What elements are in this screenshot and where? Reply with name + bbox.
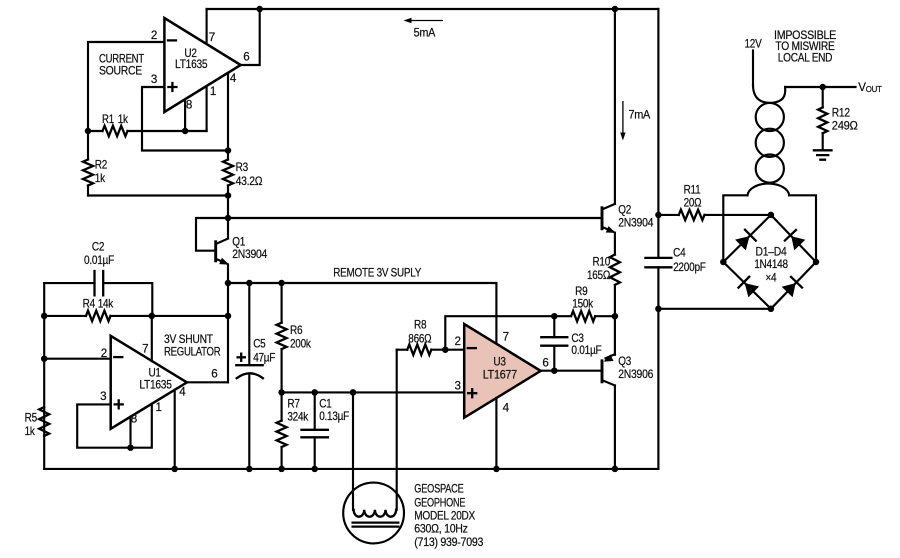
svg-text:C1: C1 <box>319 397 331 410</box>
label 12V <box>745 37 762 50</box>
svg-text:LT1635: LT1635 <box>139 378 171 391</box>
svg-text:1: 1 <box>156 401 162 414</box>
label 3V SHUNT REGULATOR <box>164 333 220 359</box>
capacitor C4 2200pF <box>645 258 671 267</box>
wire U2 pin8 stub <box>184 99 186 131</box>
svg-text:4: 4 <box>179 385 186 398</box>
resistor R9 <box>571 311 615 321</box>
wire U2 pin2 input <box>88 42 164 131</box>
svg-text:LT1635: LT1635 <box>175 58 207 71</box>
svg-text:REMOTE 3V SUPLY: REMOTE 3V SUPLY <box>333 267 421 280</box>
current arrow 5mA <box>404 18 444 40</box>
wire U1 pin6 output <box>187 381 228 383</box>
svg-text:2200pF: 2200pF <box>673 261 706 274</box>
resistor R3 <box>223 160 233 196</box>
svg-text:R10: R10 <box>593 256 611 269</box>
node U1 pin2 junction <box>41 355 48 362</box>
svg-text:GEOPHONE: GEOPHONE <box>414 496 465 509</box>
wire Q1 base loop <box>196 218 228 251</box>
label IMPOSSIBLE TO MISWIRE LOCAL END <box>774 29 837 64</box>
svg-text:2: 2 <box>455 335 461 348</box>
node remote rail left junctions <box>225 280 285 287</box>
diode bridge D1-D4 diamond <box>723 215 816 309</box>
svg-text:U3: U3 <box>493 356 505 369</box>
wire top 5mA rail <box>207 8 659 10</box>
resistor R4 <box>44 311 228 321</box>
svg-text:GEOSPACE: GEOSPACE <box>414 483 464 496</box>
svg-text:R3: R3 <box>236 161 248 174</box>
wire left rail <box>43 283 45 469</box>
svg-text:(713) 939-7093: (713) 939-7093 <box>414 536 483 549</box>
label C4 2200pF <box>673 247 706 274</box>
svg-text:2N3906: 2N3906 <box>618 368 653 381</box>
wire Q2 collector to top rail <box>614 9 616 204</box>
node feedback junctions <box>551 313 618 320</box>
label C1 0.13µF <box>319 397 349 423</box>
resistor R7 <box>277 392 287 469</box>
label Q1 2N3904 <box>232 236 268 261</box>
svg-text:Q3: Q3 <box>618 355 631 368</box>
label R7 324k <box>287 397 308 423</box>
transistor Q2 2N3904 <box>602 204 616 233</box>
wire R3 to Q1 collector node <box>227 196 229 239</box>
svg-text:R8: R8 <box>414 318 426 331</box>
diode D4 (upper-right) <box>785 230 805 250</box>
wire geophone lead A <box>352 392 354 509</box>
svg-text:R5: R5 <box>25 412 37 425</box>
svg-text:1k: 1k <box>95 172 105 185</box>
svg-text:1N4148: 1N4148 <box>754 258 788 271</box>
label R9 150k <box>572 285 593 311</box>
node R3 bottom junction <box>225 192 232 199</box>
resistor R2 <box>83 131 93 196</box>
svg-text:3: 3 <box>455 380 461 393</box>
svg-text:12V: 12V <box>745 37 762 50</box>
wire geophone lead B <box>396 350 398 510</box>
svg-text:47µF: 47µF <box>253 351 275 364</box>
wire U2 pin7 to top rail <box>206 9 208 44</box>
wire U1 pin8 stub <box>129 417 131 448</box>
svg-text:C5: C5 <box>253 338 265 351</box>
svg-text:7mA: 7mA <box>629 108 651 121</box>
svg-text:150k: 150k <box>572 297 593 310</box>
svg-text:6: 6 <box>542 357 548 370</box>
node bridge vertices <box>720 212 819 312</box>
svg-text:8: 8 <box>186 98 192 111</box>
capacitor C3 0.01µF <box>541 316 567 371</box>
capacitor C1 0.13µF <box>302 392 328 469</box>
node right vertical junctions <box>655 212 662 312</box>
capacitor C5 47µF <box>236 283 263 469</box>
wire U1 pin2 input <box>44 358 111 360</box>
resistor R8 <box>397 345 465 355</box>
svg-text:LOCAL END: LOCAL END <box>778 51 832 64</box>
svg-text:D1–D4: D1–D4 <box>756 245 788 258</box>
node U1 pin8 junction <box>127 444 134 451</box>
wire U3 pin4 to ground rail <box>495 398 497 469</box>
label CURRENT SOURCE <box>99 53 144 78</box>
label R11 20Ω <box>684 183 702 209</box>
resistor R10 <box>610 255 620 317</box>
svg-text:7: 7 <box>503 330 509 343</box>
op-amp U2 LT1635 <box>151 18 250 112</box>
svg-text:R4: R4 <box>83 297 96 310</box>
wire remote 3V supply rail <box>228 283 496 344</box>
resistor R6 <box>277 283 287 392</box>
transformer twisted pair (local end) <box>748 51 790 196</box>
label VOUT <box>858 81 882 94</box>
node pin3 net junctions <box>278 389 356 396</box>
label R6 200k <box>290 324 311 351</box>
resistor R5 <box>39 407 49 436</box>
transistor Q3 2N3906 <box>602 354 615 385</box>
svg-text:4: 4 <box>503 402 510 415</box>
node top rail junctions <box>256 6 618 13</box>
node bottom rail junctions <box>171 466 618 473</box>
svg-text:165Ω: 165Ω <box>587 269 611 282</box>
svg-text:0.13µF: 0.13µF <box>319 410 349 423</box>
svg-text:43.2Ω: 43.2Ω <box>236 175 263 188</box>
node VOUT junction <box>819 84 826 91</box>
label R4 14k <box>83 297 114 310</box>
wire Q2 emitter to R10 <box>614 233 616 255</box>
svg-text:8: 8 <box>131 413 137 426</box>
label R5 1k <box>25 412 37 439</box>
wire bridge bottom to right vertical <box>658 308 771 310</box>
node U3 output junction <box>551 367 558 374</box>
svg-text:×4: ×4 <box>765 272 777 285</box>
svg-text:C2: C2 <box>92 240 104 253</box>
node R3 top junction <box>225 147 232 154</box>
svg-text:R9: R9 <box>575 285 587 298</box>
svg-text:Q1: Q1 <box>232 236 245 249</box>
diode D2 (upper-left) <box>735 230 756 251</box>
resistor R1 <box>88 126 207 136</box>
svg-text:R11: R11 <box>684 183 701 196</box>
label C3 0.01µF <box>571 332 601 357</box>
node Q1 collector junction <box>225 215 232 222</box>
node R1/R2 and pin8 junctions <box>85 128 189 135</box>
label GEOSPACE GEOPHONE MODEL 20DX <box>414 483 483 549</box>
svg-text:2: 2 <box>151 29 157 42</box>
label R2 1k <box>95 159 107 186</box>
wire R2 bottom to R3 bottom <box>88 194 228 196</box>
svg-text:0.01µF: 0.01µF <box>84 254 114 267</box>
svg-text:MODEL 20DX: MODEL 20DX <box>414 509 475 522</box>
svg-text:C4: C4 <box>673 247 686 260</box>
svg-text:630Ω, 10Hz: 630Ω, 10Hz <box>414 523 468 536</box>
svg-text:14k: 14k <box>98 297 114 310</box>
label R10 165Ω <box>587 256 611 283</box>
svg-text:3: 3 <box>100 390 106 403</box>
svg-text:324k: 324k <box>287 410 308 423</box>
wire feedback U3 pin2 up <box>445 316 571 350</box>
svg-text:6: 6 <box>211 368 217 381</box>
svg-text:1k: 1k <box>25 425 35 438</box>
wire Q1 node to Q2 base <box>228 217 601 219</box>
svg-text:R7: R7 <box>287 397 299 410</box>
wire Q3 collector to ground rail <box>614 386 616 469</box>
svg-text:5mA: 5mA <box>414 26 436 39</box>
wire bridge frame from transformer <box>723 195 816 262</box>
wire U2 pin1 stub <box>206 86 208 131</box>
wire U1 pin4 to ground rail <box>174 390 176 469</box>
wire U3 pin3 node <box>282 391 465 393</box>
label Q2 2N3904 <box>618 203 654 229</box>
label R3 43.2Ω <box>236 161 263 188</box>
svg-text:REGULATOR: REGULATOR <box>164 346 220 359</box>
wire Q1 emitter vertical to U1 pin6 <box>227 283 229 382</box>
wire U2 pin3 input loop to R3 top node <box>142 87 228 151</box>
svg-text:20Ω: 20Ω <box>684 196 702 209</box>
label C5 47µF <box>253 338 275 365</box>
svg-text:6: 6 <box>243 50 249 63</box>
wire U3 output to Q3 base <box>541 370 601 372</box>
ground symbol <box>814 150 832 159</box>
label R8 866Ω <box>408 318 432 345</box>
node R4 line junctions <box>41 313 231 320</box>
svg-text:R2: R2 <box>95 159 107 172</box>
wire bottom ground rail <box>44 468 658 470</box>
wire U1 pin7 to R4 line <box>151 316 153 361</box>
op-amp U3 LT1677 <box>455 324 549 418</box>
wire right vertical (phantom feed) <box>657 9 659 469</box>
svg-text:1k: 1k <box>118 113 128 126</box>
svg-text:R12: R12 <box>832 106 850 119</box>
label R12 249Ω <box>832 106 858 132</box>
svg-text:2N3904: 2N3904 <box>618 217 654 230</box>
svg-text:2N3904: 2N3904 <box>232 248 268 261</box>
diode D1 (lower-left) <box>739 277 760 298</box>
svg-text:200k: 200k <box>290 338 311 351</box>
label REMOTE 3V SUPLY <box>333 267 421 280</box>
svg-text:3: 3 <box>151 73 157 86</box>
label D1-D4 1N4148 x4 <box>754 245 788 284</box>
label Q3 2N3906 <box>618 355 653 381</box>
label C2 0.01µF <box>84 240 114 267</box>
svg-text:866Ω: 866Ω <box>408 333 432 346</box>
svg-text:R6: R6 <box>290 324 302 337</box>
diode D3 (lower-right) <box>782 277 802 297</box>
label R1 1k <box>102 113 128 126</box>
svg-text:7: 7 <box>142 343 148 356</box>
svg-text:Q2: Q2 <box>618 203 631 216</box>
current arrow 7mA <box>620 101 650 141</box>
svg-text:1: 1 <box>210 85 216 98</box>
capacitor C2 0.01µF <box>44 271 152 316</box>
node U3 pin2 junction <box>442 346 449 353</box>
svg-text:0.01µF: 0.01µF <box>571 344 601 357</box>
wire Q3 emitter to feedback node <box>614 316 616 355</box>
svg-text:4: 4 <box>230 72 237 85</box>
svg-text:3V SHUNT: 3V SHUNT <box>164 333 213 346</box>
transistor Q1 2N3904 <box>216 239 229 283</box>
svg-text:249Ω: 249Ω <box>832 120 858 133</box>
svg-text:7: 7 <box>209 31 215 44</box>
geophone symbol <box>343 483 404 544</box>
svg-text:SOURCE: SOURCE <box>99 65 143 78</box>
resistor R11 <box>658 210 771 220</box>
resistor R12 <box>818 87 827 150</box>
op-amp U1 LT1635 <box>100 336 217 429</box>
wire U2 pin4 to R3 <box>227 73 229 160</box>
wire U2 pin6 output to top rail <box>241 9 260 65</box>
wire U1 pin3 loop <box>77 404 152 448</box>
svg-text:LT1677: LT1677 <box>483 369 517 382</box>
wire VOUT line <box>785 86 855 88</box>
svg-text:R1: R1 <box>102 113 114 126</box>
